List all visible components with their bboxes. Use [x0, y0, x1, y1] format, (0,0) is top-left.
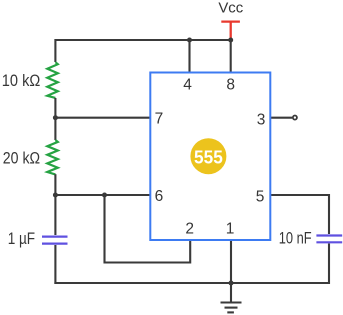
- capacitor C1 1 µF: [42, 237, 68, 244]
- Vcc supply symbol (red): [221, 22, 240, 40]
- wire: left rail between resistors: [54, 98, 56, 140]
- resistor R2 20 kΩ: [47, 140, 58, 174]
- svg-text:20 kΩ: 20 kΩ: [3, 149, 40, 168]
- junction: pin 1 / ground rail: [229, 281, 234, 286]
- svg-text:Vcc: Vcc: [218, 1, 243, 17]
- wire: pin 7 lead: [55, 117, 150, 119]
- wire: pin 5 lead: [270, 194, 329, 196]
- wire: top rail: [55, 39, 230, 41]
- capacitor C2 10 nF: [316, 236, 342, 243]
- svg-text:7: 7: [155, 110, 164, 127]
- wire: ground stem: [230, 283, 232, 302]
- resistor R1 10 kΩ: [47, 62, 58, 98]
- junction: R2-C1 / pin 6: [53, 193, 58, 198]
- wire: left rail bottom segment: [54, 245, 56, 284]
- svg-text:555: 555: [194, 147, 223, 168]
- op IC U1 555 timer body: [150, 73, 270, 241]
- svg-text:1: 1: [226, 221, 235, 238]
- wire: bottom rail: [54, 282, 329, 284]
- ground symbol: [221, 303, 242, 313]
- wire: pin 8 drop: [230, 40, 232, 73]
- svg-text:4: 4: [183, 77, 192, 94]
- wire: left rail between R2 and C1: [54, 174, 56, 235]
- svg-text:10 nF: 10 nF: [279, 229, 312, 248]
- svg-text:10 kΩ: 10 kΩ: [2, 71, 41, 90]
- wire: right rail lower: [328, 244, 330, 285]
- svg-text:8: 8: [226, 77, 235, 94]
- svg-text:3: 3: [257, 112, 266, 129]
- badge: 555: [190, 138, 226, 174]
- wire: pin 2 to pin 6 feedback: [105, 195, 191, 263]
- svg-text:5: 5: [256, 189, 265, 206]
- wire: pin 4 drop: [188, 40, 190, 73]
- svg-text:6: 6: [155, 188, 164, 205]
- junction: pin 4 / top rail: [187, 38, 192, 43]
- wire: pin 3 output stub: [270, 117, 292, 119]
- wire: left rail top segment: [54, 39, 56, 62]
- terminal: output open circle: [293, 116, 297, 120]
- junction: R1-R2 / pin 7: [53, 115, 58, 120]
- wire: right rail upper: [328, 194, 330, 234]
- junction: pin 6 lead / feedback: [102, 193, 107, 198]
- svg-text:1 µF: 1 µF: [8, 229, 35, 248]
- svg-text:2: 2: [185, 221, 194, 238]
- wire: pin 6 lead: [55, 194, 150, 196]
- wire: pin 1 drop to ground rail: [230, 240, 232, 283]
- junction: pin 8 / Vcc: [228, 38, 233, 43]
